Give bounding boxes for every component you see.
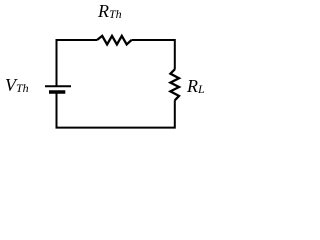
resistor R_Th xyxy=(97,36,132,45)
battery V_Th positive plate xyxy=(45,85,71,87)
label R_Th xyxy=(98,2,122,21)
wire: R_Th right terminal across and down to R_L top terminal xyxy=(132,40,175,70)
label V_Th xyxy=(5,76,29,95)
label R_L xyxy=(187,77,205,96)
wire: battery positive up and across to R_Th left terminal xyxy=(57,40,98,86)
resistor R_L xyxy=(170,69,179,100)
battery V_Th negative plate xyxy=(49,90,65,93)
wire: R_L bottom terminal down, along bottom, up to battery negative xyxy=(57,93,175,128)
